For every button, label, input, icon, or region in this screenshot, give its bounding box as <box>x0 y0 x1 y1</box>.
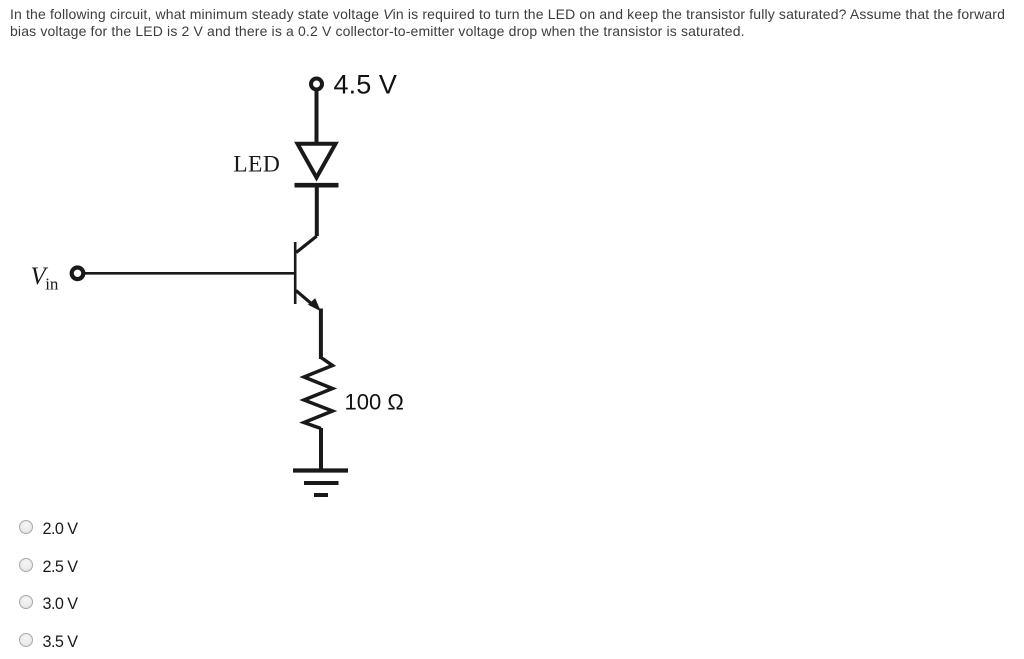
ground <box>293 471 348 496</box>
wire resistor to ground <box>319 428 323 470</box>
label LED <box>233 152 280 178</box>
svg-text:4.5 V: 4.5 V <box>334 69 398 99</box>
resistor R1 <box>304 358 333 429</box>
option 3.0 V <box>14 594 16 610</box>
svg-text:in: in <box>45 274 59 293</box>
option 2.0 V <box>14 519 16 535</box>
wire LED cathode to collector <box>296 185 317 253</box>
LED D1 <box>295 144 339 185</box>
wire Vin to base <box>85 272 296 275</box>
svg-text:100 Ω: 100 Ω <box>345 389 404 414</box>
transistor Q1 (NPN) <box>295 242 321 311</box>
wire supply to LED anode <box>315 90 319 145</box>
terminal 4.5V supply <box>311 79 322 90</box>
label Vin <box>31 263 59 293</box>
label 4.5 V <box>334 69 398 99</box>
svg-text:LED: LED <box>233 152 280 178</box>
option 2.5 V <box>14 557 16 573</box>
wire emitter to resistor <box>319 309 323 360</box>
option 3.5 V <box>14 632 16 648</box>
label 100 ohm <box>345 389 404 414</box>
terminal Vin <box>72 268 84 280</box>
